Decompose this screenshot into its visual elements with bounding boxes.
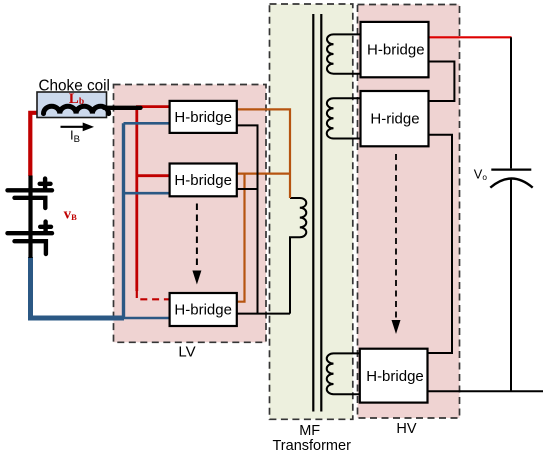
battery cell 1 long plate	[8, 188, 53, 192]
battery cell 2 short plate	[15, 241, 46, 254]
svg-text:Vo: Vo	[474, 167, 488, 182]
wire: HV link box1 to box2	[428, 62, 454, 102]
svg-text:H-bridge: H-bridge	[174, 172, 232, 189]
battery cell 2 long plate	[8, 231, 53, 235]
svg-text:MF: MF	[299, 423, 320, 439]
svg-text:H-ridge: H-ridge	[370, 111, 419, 128]
battery cell 1 plus	[40, 179, 51, 189]
capacitor Co top plate	[491, 169, 531, 171]
wire: black net top H-bridge down	[236, 125, 258, 313]
wire: red node to top H-bridge	[136, 105, 171, 108]
H-bridge box LV2	[170, 164, 237, 197]
wire: blue vertical bus LV	[122, 123, 125, 318]
wire: red battery positive riser	[30, 113, 45, 176]
wire: blue battery negative rail	[31, 257, 125, 318]
H-bridge box HV2 (labelled H-ridge)	[361, 91, 429, 146]
winding P1 primary with bottom lead	[290, 198, 306, 314]
battery cell 2 plus	[40, 222, 51, 232]
wire: brown net top H-bridge to primary top	[236, 109, 290, 198]
wire: thick choke output	[104, 106, 141, 110]
wire: red vertical bus LV	[135, 107, 138, 291]
inductor Lb	[44, 106, 109, 113]
svg-text:HV: HV	[396, 421, 416, 437]
wire: black bottom H-bridge to primary bottom	[236, 313, 290, 315]
wire: blue rail to bottom H-bridge	[124, 317, 171, 320]
svg-text:H-bridge: H-bridge	[174, 109, 232, 126]
svg-text:H-bridge: H-bridge	[174, 302, 232, 319]
H-bridge box HV3	[360, 349, 428, 403]
arrow IB	[61, 123, 95, 146]
wire: output vertical above capacitor	[510, 37, 512, 168]
choke coil box	[37, 77, 110, 117]
H-bridge box LV1	[170, 101, 237, 133]
transformer core	[313, 14, 321, 412]
svg-text:H-bridge: H-bridge	[366, 368, 424, 385]
svg-text:Transformer: Transformer	[272, 438, 351, 454]
dashed continuation arrow LV	[192, 204, 201, 285]
capacitor Co curved plate	[490, 178, 532, 187]
H-bridge box LV3	[170, 293, 237, 326]
svg-text:H-bridge: H-bridge	[367, 41, 425, 58]
MF transformer region box	[270, 4, 353, 419]
wire: brown branch to bottom H-bridge	[236, 174, 245, 302]
wire: red branch middle H-bridge	[137, 174, 171, 177]
wire: HV red output top	[429, 36, 512, 38]
wire: blue branch middle H-bridge	[124, 192, 171, 195]
svg-text:LV: LV	[178, 344, 195, 361]
winding W3 secondary bottom	[327, 353, 361, 394]
wire: HV link box2 to box3	[427, 135, 452, 353]
winding W1 secondary top	[327, 34, 361, 73]
battery cell 1 short plate	[15, 198, 46, 208]
wire: black branch middle H-bridge	[236, 188, 258, 190]
wire: output bottom rail	[427, 390, 543, 392]
battery VB center line	[28, 176, 32, 259]
dashed continuation arrow HV	[392, 154, 401, 334]
wire: blue branch top H-bridge	[124, 122, 171, 125]
LV region box	[114, 85, 267, 343]
wire: red dashed continuation to bottom H-bridge	[137, 291, 171, 299]
HV region box	[358, 5, 460, 419]
wire: output vertical below capacitor	[510, 180, 512, 392]
winding W2 secondary middle	[327, 98, 361, 138]
H-bridge box HV1	[361, 22, 429, 77]
svg-text:IB: IB	[70, 128, 80, 146]
wire: brown branch middle H-bridge	[236, 173, 290, 175]
svg-text:vB: vB	[64, 207, 78, 223]
